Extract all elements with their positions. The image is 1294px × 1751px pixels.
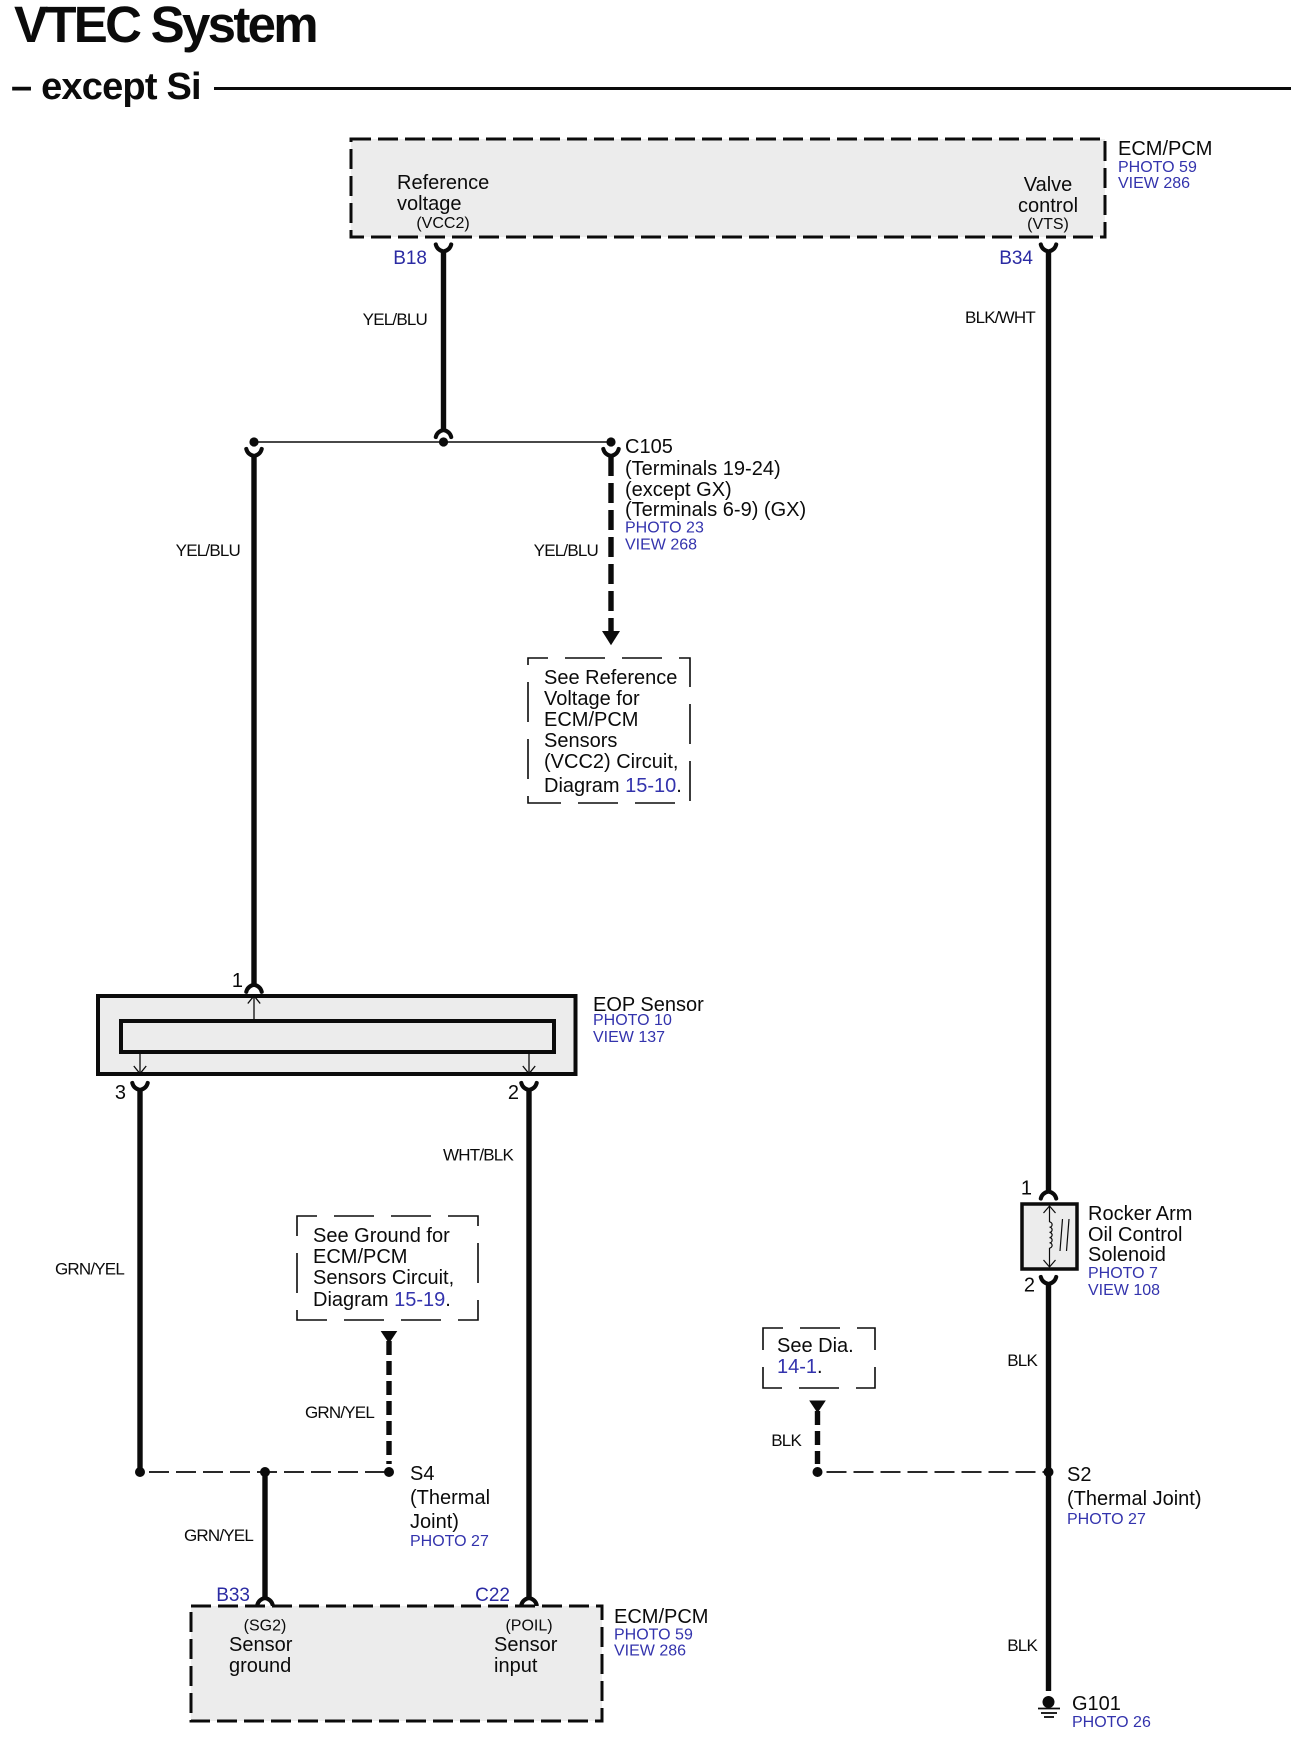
svg-text:BLK/WHT: BLK/WHT <box>965 308 1035 327</box>
pin B34 connector symbol <box>1041 245 1056 252</box>
Rocker Arm Oil Control Solenoid body <box>1022 1204 1077 1269</box>
connector symbol at junction (inverted Y) <box>436 430 451 437</box>
svg-text:PHOTO 7: PHOTO 7 <box>1088 1265 1158 1282</box>
svg-text:Oil Control: Oil Control <box>1088 1224 1182 1246</box>
label Rocker Arm Oil Control Solenoid <box>1088 1203 1192 1299</box>
label EOP Sensor <box>593 994 704 1046</box>
wire B18 to junction (YEL/BLU) <box>441 252 446 430</box>
pin B18 connector symbol <box>436 245 451 252</box>
See Ground note box <box>297 1216 478 1320</box>
svg-text:ECM/PCM: ECM/PCM <box>614 1606 708 1628</box>
wire pin3 GRN/YEL down <box>137 1090 142 1472</box>
EOP internal pin2 lead with down arrow <box>523 1052 535 1074</box>
EOP internal pin1 lead with up arrow <box>248 996 260 1020</box>
svg-text:Diagram 15-19.: Diagram 15-19. <box>313 1289 451 1311</box>
svg-text:S4: S4 <box>410 1463 434 1485</box>
svg-text:C105: C105 <box>625 436 673 458</box>
ground G101 symbol <box>1038 1696 1060 1717</box>
dashed wire GRN/YEL to S4 <box>386 1341 391 1464</box>
solenoid pin 2 connector symbol <box>1041 1277 1056 1284</box>
title rule <box>214 87 1291 90</box>
label C105 connector <box>625 436 806 554</box>
svg-text:VIEW 286: VIEW 286 <box>614 1643 686 1660</box>
svg-text:ECM/PCM: ECM/PCM <box>313 1246 407 1268</box>
connector C105 symbol below right dot <box>603 449 618 456</box>
EOP internal pin3 lead with down arrow <box>134 1052 146 1074</box>
svg-text:S2: S2 <box>1067 1464 1091 1486</box>
svg-text:B33: B33 <box>216 1585 250 1606</box>
svg-text:control: control <box>1018 195 1078 217</box>
svg-text:BLK: BLK <box>1007 1351 1038 1370</box>
svg-text:– except Si: – except Si <box>11 66 201 108</box>
svg-text:1: 1 <box>232 970 243 992</box>
EOP Sensor pin 1 connector (inverted Y) <box>246 985 261 992</box>
EOP pin 2 connector symbol <box>521 1083 536 1090</box>
svg-text:YEL/BLU: YEL/BLU <box>534 541 598 560</box>
svg-text:See Dia.: See Dia. <box>777 1335 854 1357</box>
wire pin2 WHT/BLK down to C22 <box>526 1090 531 1598</box>
svg-text:C22: C22 <box>475 1585 510 1606</box>
svg-text:WHT/BLK: WHT/BLK <box>443 1146 514 1165</box>
svg-text:B34: B34 <box>999 248 1033 269</box>
label: Valve control (VTS) <box>1018 174 1078 233</box>
svg-text:YEL/BLU: YEL/BLU <box>176 541 240 560</box>
svg-text:(SG2): (SG2) <box>244 1618 287 1635</box>
svg-text:GRN/YEL: GRN/YEL <box>184 1526 253 1545</box>
label: ECM/PCM (bottom right) <box>614 1606 708 1660</box>
node dot S4 middle <box>260 1467 270 1477</box>
node dot middle <box>439 437 448 446</box>
svg-text:PHOTO 10: PHOTO 10 <box>593 1012 672 1029</box>
svg-text:PHOTO 59: PHOTO 59 <box>1118 159 1197 176</box>
svg-text:G101: G101 <box>1072 1693 1121 1715</box>
connector symbol below left dot <box>246 449 261 456</box>
EOP Sensor body <box>98 996 576 1074</box>
svg-text:GRN/YEL: GRN/YEL <box>305 1403 374 1422</box>
svg-text:Sensors: Sensors <box>544 730 617 752</box>
S2 bus dashed horizontal <box>818 1471 1049 1473</box>
svg-text:(Terminals 19-24): (Terminals 19-24) <box>625 458 781 480</box>
svg-text:YEL/BLU: YEL/BLU <box>363 310 427 329</box>
svg-text:(POIL): (POIL) <box>505 1618 552 1635</box>
svg-text:Diagram 15-10.: Diagram 15-10. <box>544 775 682 797</box>
svg-text:voltage: voltage <box>397 193 462 215</box>
svg-text:PHOTO 26: PHOTO 26 <box>1072 1714 1151 1731</box>
svg-text:(Thermal Joint): (Thermal Joint) <box>1067 1488 1201 1510</box>
svg-text:Solenoid: Solenoid <box>1088 1244 1166 1266</box>
svg-text:Sensor: Sensor <box>229 1634 293 1656</box>
svg-text:Reference: Reference <box>397 172 489 194</box>
svg-text:(VCC2): (VCC2) <box>416 215 469 232</box>
label G101 <box>1072 1693 1151 1731</box>
ECM/PCM connector block (bottom) <box>191 1606 602 1721</box>
EOP pin 3 connector symbol <box>132 1083 147 1090</box>
svg-text:14-1.: 14-1. <box>777 1356 823 1378</box>
svg-text:1: 1 <box>1021 1178 1032 1200</box>
node dot S2 right <box>1044 1467 1054 1477</box>
pin B33 connector symbol <box>257 1598 272 1605</box>
arrowhead below See Dia box <box>809 1401 826 1414</box>
ECM/PCM connector block (top) <box>351 139 1105 237</box>
dashed wire BLK to S2 bus <box>815 1411 820 1464</box>
node dot S2 left <box>813 1467 823 1477</box>
svg-text:VIEW 108: VIEW 108 <box>1088 1282 1160 1299</box>
svg-text:Rocker Arm: Rocker Arm <box>1088 1203 1192 1225</box>
svg-text:(Terminals 6-9) (GX): (Terminals 6-9) (GX) <box>625 499 806 521</box>
node dot S4 right <box>384 1467 394 1477</box>
S4 bus dashed horizontal <box>140 1471 389 1473</box>
wire: horizontal bus at junction <box>254 441 611 443</box>
svg-text:ground: ground <box>229 1655 291 1677</box>
svg-text:2: 2 <box>1024 1275 1035 1297</box>
svg-text:VTEC System: VTEC System <box>14 0 316 53</box>
arrowhead below See Ground box <box>381 1331 398 1344</box>
wire B34 to solenoid (BLK/WHT) <box>1046 252 1051 1192</box>
svg-text:VIEW 268: VIEW 268 <box>625 537 697 554</box>
svg-text:ECM/PCM: ECM/PCM <box>544 709 638 731</box>
node dot S4 left <box>135 1467 145 1477</box>
wire left branch YEL/BLU down to EOP pin1 <box>251 456 256 985</box>
See Reference Voltage note box <box>528 658 690 803</box>
svg-text:B18: B18 <box>393 248 427 269</box>
svg-text:See Reference: See Reference <box>544 667 677 689</box>
svg-text:VIEW 286: VIEW 286 <box>1118 175 1190 192</box>
svg-text:ECM/PCM: ECM/PCM <box>1118 138 1212 160</box>
svg-text:PHOTO 59: PHOTO 59 <box>614 1627 693 1644</box>
See Dia note box <box>763 1328 875 1388</box>
wire BLK solenoid to S2 to G101 <box>1046 1284 1051 1691</box>
svg-text:PHOTO 27: PHOTO 27 <box>410 1533 489 1550</box>
label: (SG2) Sensor ground <box>229 1618 293 1678</box>
svg-text:(except GX): (except GX) <box>625 479 732 501</box>
node dot right (C105) <box>606 437 615 446</box>
svg-text:Sensors Circuit,: Sensors Circuit, <box>313 1267 454 1289</box>
svg-text:PHOTO 27: PHOTO 27 <box>1067 1511 1146 1528</box>
solenoid pin 1 connector (inverted Y) <box>1041 1192 1056 1199</box>
label S4 (Thermal Joint) <box>410 1463 490 1550</box>
svg-text:Sensor: Sensor <box>494 1634 558 1656</box>
wire GRN/YEL from S4 to B33 <box>262 1472 267 1598</box>
svg-text:PHOTO 23: PHOTO 23 <box>625 520 704 537</box>
svg-text:BLK: BLK <box>771 1431 802 1450</box>
label: ECM/PCM (top right) <box>1118 138 1212 192</box>
arrowhead to See Reference box <box>602 631 620 645</box>
title <box>11 0 316 108</box>
label S2 (Thermal Joint) <box>1067 1464 1201 1528</box>
svg-text:input: input <box>494 1655 538 1677</box>
svg-text:BLK: BLK <box>1007 1636 1038 1655</box>
svg-text:(VTS): (VTS) <box>1027 216 1069 233</box>
label: (POIL) Sensor input <box>494 1618 558 1678</box>
svg-text:See Ground for: See Ground for <box>313 1225 450 1247</box>
svg-text:GRN/YEL: GRN/YEL <box>55 1260 124 1279</box>
svg-text:Voltage for: Voltage for <box>544 688 640 710</box>
svg-text:(Thermal: (Thermal <box>410 1487 490 1509</box>
pin C22 connector symbol <box>521 1598 536 1605</box>
label: Reference voltage (VCC2) <box>397 172 489 232</box>
node dot left <box>249 437 258 446</box>
svg-text:3: 3 <box>115 1082 126 1104</box>
svg-text:(VCC2) Circuit,: (VCC2) Circuit, <box>544 751 678 773</box>
svg-text:2: 2 <box>508 1082 519 1104</box>
svg-text:Joint): Joint) <box>410 1511 459 1533</box>
svg-text:VIEW 137: VIEW 137 <box>593 1029 665 1046</box>
svg-text:Valve: Valve <box>1024 174 1073 196</box>
wire C105 dashed branch <box>608 456 613 632</box>
